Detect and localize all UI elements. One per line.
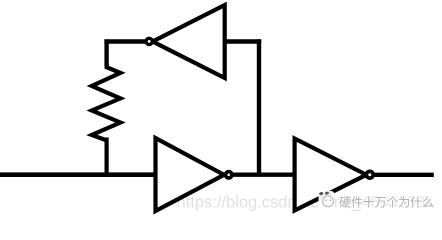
wire: U1 output to U2 input xyxy=(233,172,295,176)
watermark logo face xyxy=(325,199,327,201)
bubble of U3 xyxy=(146,38,152,44)
wire: resistor top lead vertical xyxy=(104,39,108,66)
wire: main input net (left horizontal) xyxy=(0,172,157,177)
wire: top inverter output to resistor (horizontal) xyxy=(104,39,145,43)
inverter U1 (bottom left, pointing right) xyxy=(156,138,225,211)
inverter U3 (top, pointing left) xyxy=(153,5,225,78)
inverter U2 (right, pointing right) xyxy=(295,139,367,211)
resistor R1 zigzag xyxy=(92,64,121,140)
bubble of U1 xyxy=(226,172,232,178)
wire: feedback vertical xyxy=(257,39,261,174)
wire: top inverter input (horizontal to feedback) xyxy=(225,39,262,43)
svg-text:硬件十万个为什么: 硬件十万个为什么 xyxy=(339,196,434,210)
watermark logo ears xyxy=(319,192,324,196)
bubble of U2 xyxy=(366,171,373,178)
wire: resistor bottom lead xyxy=(104,138,108,177)
watermark logo backdrop xyxy=(319,191,335,209)
watermark logo circle xyxy=(323,196,334,207)
wire: output net (right horizontal) xyxy=(374,173,434,177)
